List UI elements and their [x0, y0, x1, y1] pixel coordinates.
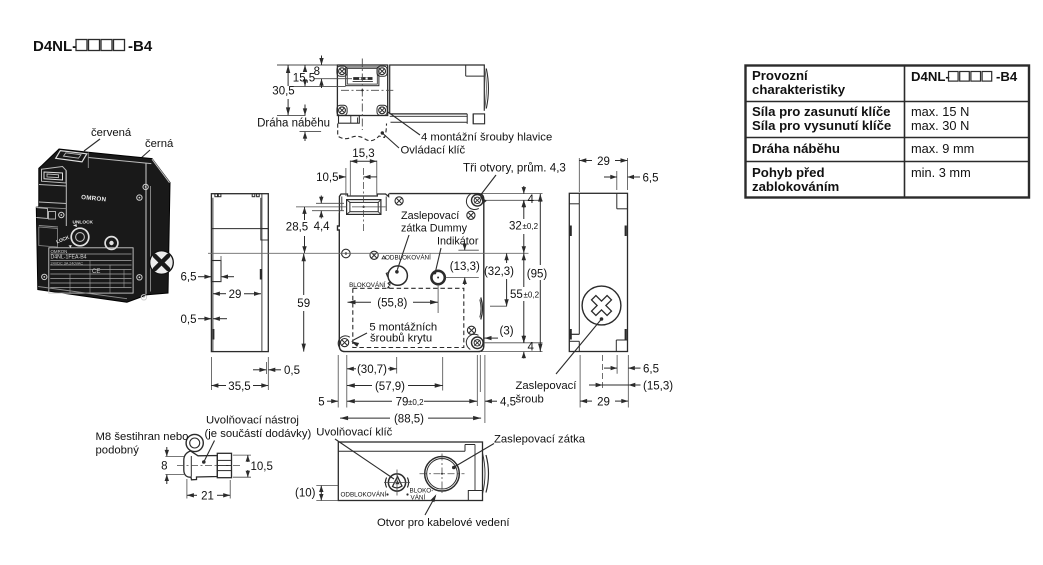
svg-text:Zaslepovací zátka: Zaslepovací zátka	[494, 434, 586, 446]
svg-text:±0,2: ±0,2	[408, 398, 424, 407]
svg-text:Uvolňovací nástroj: Uvolňovací nástroj	[206, 415, 299, 427]
svg-text:Síla pro zasunutí klíče: Síla pro zasunutí klíče	[752, 104, 891, 119]
3D pictorial of switch	[36, 149, 173, 302]
release tool dims 8 21 10,5 and labels	[96, 415, 312, 503]
svg-text:M8 šestihran nebo: M8 šestihran nebo	[96, 431, 189, 443]
svg-text:Provozní: Provozní	[752, 68, 809, 83]
svg-text:max. 15 N: max. 15 N	[911, 104, 969, 119]
table Provozní charakteristiky	[746, 66, 1030, 198]
svg-text:21: 21	[201, 491, 214, 503]
svg-text:55: 55	[510, 289, 523, 301]
svg-text:charakteristiky: charakteristiky	[752, 82, 846, 97]
release tool drawing	[177, 434, 241, 479]
svg-text:4: 4	[528, 194, 535, 206]
svg-text:Dráha náběhu: Dráha náběhu	[752, 141, 840, 156]
left side view of switch	[211, 194, 268, 352]
svg-text:8: 8	[161, 461, 167, 473]
top view dimensions 30,5 15,5 8 Draha nabehu	[257, 56, 552, 157]
labels cervena/cerna with arrows	[83, 127, 174, 175]
svg-text:Dráha náběhu: Dráha náběhu	[257, 118, 330, 130]
svg-text:0,5: 0,5	[181, 314, 197, 326]
svg-text:6,5: 6,5	[181, 272, 197, 284]
svg-text:±0,2: ±0,2	[524, 291, 540, 300]
svg-text:Síla pro vysunutí klíče: Síla pro vysunutí klíče	[752, 118, 891, 133]
svg-text:Tři otvory, prům. 4,3: Tři otvory, prům. 4,3	[463, 162, 566, 175]
svg-text:(30,7): (30,7)	[357, 364, 387, 376]
svg-text:(13,3): (13,3)	[450, 261, 480, 273]
bottom view of switch	[338, 442, 488, 502]
svg-text:4: 4	[528, 342, 535, 354]
svg-text:4,5: 4,5	[500, 397, 516, 409]
svg-text:Indikátor: Indikátor	[437, 236, 479, 248]
svg-text:zátka Dummy: zátka Dummy	[401, 223, 468, 235]
svg-text:Uvolňovací klíč: Uvolňovací klíč	[316, 427, 392, 439]
svg-text:podobný: podobný	[96, 445, 140, 457]
svg-text:zablokováním: zablokováním	[752, 179, 839, 194]
svg-text:-B4: -B4	[128, 38, 153, 55]
svg-text:15,5: 15,5	[293, 72, 315, 84]
svg-text:±0,2: ±0,2	[523, 222, 539, 231]
svg-text:10,5: 10,5	[316, 172, 338, 184]
svg-text:79: 79	[396, 397, 409, 409]
svg-text:šroub: šroub	[516, 394, 544, 406]
right side view dimensions 29 6,5 (15,3)	[579, 156, 673, 409]
svg-text:D4NL-: D4NL-	[911, 69, 950, 84]
svg-text:max. 9 mm: max. 9 mm	[911, 141, 974, 156]
svg-text:Ovládací klíč: Ovládací klíč	[401, 145, 466, 157]
svg-text:6,5: 6,5	[643, 172, 659, 184]
svg-text:(95): (95)	[527, 268, 548, 280]
svg-text:59: 59	[297, 298, 310, 310]
svg-text:28,5: 28,5	[286, 222, 308, 234]
svg-text:24VDC 3A 240VAC: 24VDC 3A 240VAC	[51, 261, 84, 265]
right side view with X screw	[556, 193, 628, 374]
top view of switch head and body	[337, 59, 489, 141]
svg-text:Zaslepovací: Zaslepovací	[401, 210, 459, 222]
svg-text:min. 3 mm: min. 3 mm	[911, 165, 971, 180]
svg-text:Pohyb před: Pohyb před	[752, 165, 825, 180]
svg-text:15,3: 15,3	[352, 148, 374, 160]
svg-text:(88,5): (88,5)	[394, 413, 424, 425]
svg-text:D4NL-: D4NL-	[33, 38, 77, 55]
svg-text:5: 5	[318, 397, 324, 409]
svg-text:ODBLOKOVÁNÍ: ODBLOKOVÁNÍ	[341, 490, 387, 499]
svg-text:černá: černá	[145, 138, 174, 150]
svg-text:Zaslepovací: Zaslepovací	[516, 380, 578, 392]
svg-text:CE: CE	[92, 269, 100, 275]
svg-text:10,5: 10,5	[251, 461, 273, 473]
svg-text:4,4: 4,4	[314, 221, 331, 233]
svg-text:(15,3): (15,3)	[643, 380, 673, 392]
left side view dimensions 6,5 29 0,5 35,5	[181, 256, 301, 393]
svg-text:8: 8	[314, 66, 320, 78]
svg-text:BLOKOVÁNÍ: BLOKOVÁNÍ	[349, 280, 386, 289]
front view of switch body	[338, 194, 484, 352]
svg-text:29: 29	[597, 396, 610, 408]
svg-text:(57,9): (57,9)	[375, 381, 405, 393]
svg-text:32: 32	[509, 221, 522, 233]
svg-text:BLOKO-: BLOKO-	[410, 488, 434, 495]
bottom view labels and (10) dim	[295, 427, 586, 530]
svg-text:max. 30 N: max. 30 N	[911, 118, 969, 133]
svg-text:Otvor pro kabelové vedení: Otvor pro kabelové vedení	[377, 517, 510, 529]
svg-text:29: 29	[597, 156, 610, 168]
svg-text:0,5: 0,5	[284, 365, 300, 377]
svg-text:-B4: -B4	[996, 69, 1018, 84]
svg-text:VÁNÍ: VÁNÍ	[411, 493, 426, 502]
front view dimensions	[208, 148, 577, 425]
svg-text:4 montážní šrouby hlavice: 4 montážní šrouby hlavice	[421, 132, 552, 144]
svg-text:(3): (3)	[500, 326, 514, 338]
svg-text:OMRON: OMRON	[51, 249, 68, 254]
svg-text:30,5: 30,5	[272, 86, 294, 98]
svg-text:červená: červená	[91, 127, 132, 139]
svg-text:(10): (10)	[295, 488, 316, 500]
svg-text:šroubů krytu: šroubů krytu	[370, 333, 432, 345]
svg-text:(55,8): (55,8)	[377, 297, 407, 309]
svg-text:35,5: 35,5	[228, 381, 250, 393]
svg-text:(je součástí dodávky): (je součástí dodávky)	[205, 428, 312, 440]
svg-text:6,5: 6,5	[643, 363, 659, 375]
svg-text:29: 29	[229, 289, 242, 301]
svg-text:(32,3): (32,3)	[484, 266, 514, 278]
svg-text:D4NL-1FEA-B4: D4NL-1FEA-B4	[51, 255, 87, 261]
